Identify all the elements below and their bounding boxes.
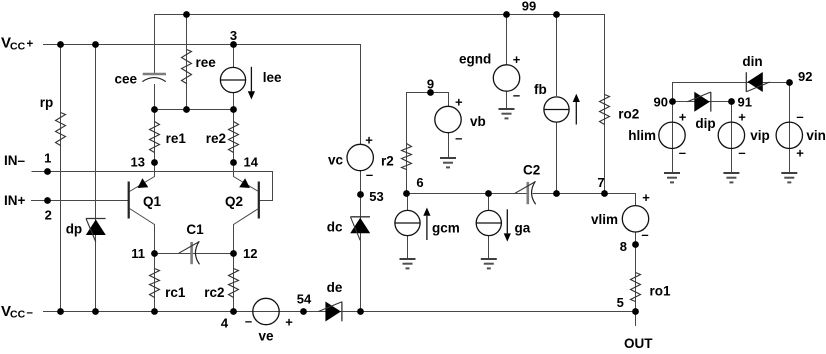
label ga bbox=[515, 221, 531, 236]
node dot rp bottom bbox=[57, 308, 64, 315]
label dip bbox=[695, 116, 715, 131]
voltage source egnd bbox=[493, 65, 519, 91]
svg-text:6: 6 bbox=[416, 175, 423, 190]
node dot fb bottom bbox=[553, 190, 560, 197]
minus of ve bbox=[245, 313, 252, 328]
wire dp branch bbox=[95, 44, 97, 312]
svg-text:Q1: Q1 bbox=[143, 194, 162, 209]
svg-text:9: 9 bbox=[427, 77, 434, 92]
label 11 bbox=[131, 246, 145, 261]
svg-text:lee: lee bbox=[263, 70, 282, 85]
resistor rp bbox=[56, 113, 66, 146]
voltage source vb bbox=[435, 106, 461, 132]
svg-text:4: 4 bbox=[221, 316, 229, 331]
svg-text:+: + bbox=[513, 52, 521, 67]
voltage source vin bbox=[776, 122, 802, 148]
label 54 bbox=[297, 292, 312, 307]
node dot ree top bbox=[183, 11, 190, 18]
label gcm bbox=[432, 221, 460, 236]
minus of vb bbox=[455, 131, 462, 146]
wire IN+ rail to Q1 base bbox=[31, 200, 128, 202]
svg-text:C2: C2 bbox=[523, 163, 540, 178]
label fb bbox=[534, 82, 547, 97]
wire vin branch bbox=[789, 82, 791, 173]
wire node6 rail right bbox=[533, 194, 636, 206]
node 53 bbox=[357, 191, 364, 198]
label vin bbox=[806, 128, 826, 143]
wire re2 branch bbox=[233, 109, 235, 162]
resistor ro1 bbox=[631, 273, 641, 302]
label 53 bbox=[369, 189, 383, 204]
svg-text:CC: CC bbox=[10, 40, 26, 52]
wire C1 node line bbox=[154, 253, 233, 255]
label IN+ bbox=[4, 193, 26, 208]
ground below vip bbox=[723, 173, 739, 182]
diode dp bbox=[86, 219, 106, 243]
wire node 9 link bbox=[407, 92, 448, 94]
wire ree branch bbox=[186, 14, 188, 109]
wire rp branch bbox=[60, 44, 62, 312]
svg-text:ro1: ro1 bbox=[650, 284, 672, 299]
wire vb branch upper bbox=[448, 92, 450, 106]
label 9 bbox=[427, 77, 434, 92]
wire din rail bbox=[672, 82, 789, 84]
diode de bbox=[318, 302, 342, 322]
node 9 bbox=[427, 89, 434, 96]
label Q2 bbox=[225, 194, 243, 209]
svg-text:+: + bbox=[796, 146, 804, 161]
wire ga branch bbox=[488, 193, 490, 210]
svg-text:1: 1 bbox=[44, 151, 51, 166]
svg-text:54: 54 bbox=[297, 292, 312, 307]
plus of vip bbox=[738, 110, 746, 125]
node dot ga top bbox=[485, 190, 492, 197]
wire re1 branch bbox=[154, 109, 156, 162]
voltage source ve bbox=[253, 298, 279, 324]
svg-text:fb: fb bbox=[534, 82, 547, 97]
svg-text:re2: re2 bbox=[206, 131, 226, 146]
svg-text:ga: ga bbox=[515, 221, 531, 236]
wire ro2 branch vertical bbox=[604, 14, 606, 193]
svg-text:–: – bbox=[27, 307, 34, 319]
transistor Q2 bbox=[234, 163, 259, 254]
svg-text:din: din bbox=[742, 54, 762, 69]
svg-text:gcm: gcm bbox=[432, 221, 460, 236]
label lee bbox=[263, 70, 282, 85]
resistor ro2 bbox=[600, 95, 610, 125]
plus of egnd bbox=[513, 52, 521, 67]
label vb bbox=[470, 114, 486, 129]
svg-text:7: 7 bbox=[597, 175, 604, 190]
ground below egnd bbox=[499, 109, 515, 118]
label 13 bbox=[131, 155, 145, 170]
wire hlim branch bbox=[672, 102, 674, 173]
label dc bbox=[327, 220, 343, 235]
svg-text:–: – bbox=[513, 88, 520, 103]
svg-text:53: 53 bbox=[369, 189, 383, 204]
resistor re2 bbox=[229, 122, 239, 153]
plus of vin bbox=[796, 146, 804, 161]
svg-text:rp: rp bbox=[40, 95, 54, 110]
current source ga arrow bbox=[504, 209, 511, 241]
wire node6 rail left bbox=[407, 193, 528, 195]
current source lee arrow bbox=[248, 67, 255, 100]
wire ga to ground bbox=[488, 236, 490, 260]
ground below ga bbox=[481, 259, 497, 268]
wire vc to output rail bbox=[360, 170, 362, 312]
svg-text:12: 12 bbox=[243, 246, 257, 261]
svg-text:92: 92 bbox=[798, 69, 812, 84]
svg-text:C1: C1 bbox=[186, 222, 204, 237]
wire IN- rail to Q2 base bbox=[32, 172, 273, 201]
svg-text:+: + bbox=[365, 132, 373, 147]
svg-text:rc1: rc1 bbox=[165, 285, 186, 300]
label 14 bbox=[244, 155, 259, 170]
wire rc1 branch bbox=[154, 253, 156, 312]
current source ga bbox=[476, 210, 501, 235]
node dot ree bottom bbox=[183, 106, 190, 113]
svg-text:91: 91 bbox=[738, 95, 752, 110]
node 92 bbox=[786, 79, 793, 86]
wire lee branch upper bbox=[233, 44, 235, 68]
label 90 bbox=[654, 95, 668, 110]
wire gcm branch bbox=[407, 194, 409, 211]
svg-text:ro2: ro2 bbox=[618, 107, 639, 122]
label vc bbox=[328, 153, 344, 168]
label 3 bbox=[230, 28, 237, 43]
label hlim bbox=[628, 128, 656, 143]
svg-text:IN+: IN+ bbox=[4, 193, 26, 208]
label rp bbox=[40, 95, 54, 110]
wire OUT stub bbox=[635, 312, 637, 326]
label din bbox=[742, 54, 762, 69]
svg-text:de: de bbox=[327, 280, 343, 295]
svg-text:vin: vin bbox=[806, 128, 826, 143]
node 12 bbox=[230, 250, 237, 257]
label re2 bbox=[206, 131, 226, 146]
diode din bbox=[746, 72, 770, 92]
wire egnd branch bbox=[506, 14, 508, 65]
label 92 bbox=[798, 69, 812, 84]
voltage source vlim bbox=[622, 206, 648, 232]
label re1 bbox=[166, 131, 187, 146]
svg-text:CC: CC bbox=[10, 308, 26, 320]
node 14 bbox=[230, 159, 237, 166]
node 13 bbox=[151, 159, 158, 166]
label VCC- bbox=[1, 303, 34, 320]
label rc1 bbox=[165, 285, 186, 300]
plus of vc bbox=[365, 132, 373, 147]
minus of egnd bbox=[513, 88, 520, 103]
ground below vb bbox=[440, 158, 456, 167]
current source fb bbox=[544, 97, 569, 122]
svg-text:dp: dp bbox=[66, 222, 83, 237]
wire lee branch lower bbox=[233, 92, 235, 109]
label 7 bbox=[597, 175, 604, 190]
node 1 bbox=[44, 168, 51, 175]
svg-text:IN–: IN– bbox=[4, 153, 26, 168]
node 8 bbox=[632, 241, 639, 248]
svg-text:3: 3 bbox=[230, 28, 237, 43]
svg-text:vc: vc bbox=[328, 153, 344, 168]
node dot dp bottom bbox=[92, 308, 99, 315]
label ree bbox=[196, 55, 217, 70]
node dot rp top bbox=[57, 41, 64, 48]
current source gcm arrow bbox=[423, 208, 430, 241]
current source gcm bbox=[395, 210, 420, 235]
label vip bbox=[750, 128, 770, 143]
svg-text:–: – bbox=[641, 227, 648, 242]
capacitor cee bbox=[142, 74, 166, 82]
node 3 bbox=[230, 41, 237, 48]
svg-text:11: 11 bbox=[131, 246, 145, 261]
wire gcm to ground bbox=[407, 236, 409, 260]
svg-text:99: 99 bbox=[522, 0, 536, 14]
svg-text:dip: dip bbox=[695, 116, 715, 131]
plus of vlim bbox=[642, 190, 650, 205]
resistor ree bbox=[182, 50, 192, 84]
diode dc bbox=[350, 217, 370, 241]
svg-text:dc: dc bbox=[327, 220, 343, 235]
node 2 bbox=[44, 197, 51, 204]
resistor rc2 bbox=[229, 269, 239, 298]
node dot cee bottom bbox=[151, 106, 158, 113]
svg-text:2: 2 bbox=[45, 208, 52, 223]
wire top rail node 99 bbox=[154, 14, 605, 16]
label rc2 bbox=[204, 285, 224, 300]
svg-text:ree: ree bbox=[196, 55, 217, 70]
label cee bbox=[115, 72, 138, 87]
svg-text:90: 90 bbox=[654, 95, 668, 110]
wire vc branch vertical bbox=[360, 44, 362, 145]
label 4 bbox=[221, 316, 229, 331]
ground below hlim bbox=[664, 173, 680, 182]
wire r2 branch bbox=[406, 92, 408, 193]
svg-text:ve: ve bbox=[258, 329, 274, 344]
node 5 bbox=[632, 308, 639, 315]
label r2 bbox=[381, 154, 394, 169]
wire Vcc- output rail bbox=[43, 311, 635, 313]
label ve bbox=[258, 329, 274, 344]
minus of hlim bbox=[679, 145, 686, 160]
svg-text:r2: r2 bbox=[381, 154, 394, 169]
label egnd bbox=[459, 52, 491, 67]
ground below gcm bbox=[400, 259, 416, 268]
wire cee branch lower bbox=[154, 84, 156, 109]
svg-text:re1: re1 bbox=[166, 131, 187, 146]
svg-text:–: – bbox=[245, 313, 252, 328]
resistor r2 bbox=[402, 144, 412, 170]
wire egnd to ground bbox=[506, 91, 508, 109]
minus of vlim bbox=[641, 227, 648, 242]
plus of hlim bbox=[679, 110, 687, 125]
minus of vip bbox=[738, 145, 745, 160]
svg-text:egnd: egnd bbox=[459, 52, 491, 67]
wire node 90 riser bbox=[672, 82, 674, 102]
label C1 bbox=[186, 222, 204, 237]
label 5 bbox=[617, 295, 624, 310]
svg-text:+: + bbox=[285, 315, 293, 330]
wire dip rail bbox=[672, 101, 731, 103]
label ro1 bbox=[650, 284, 672, 299]
resistor rc1 bbox=[150, 269, 160, 298]
label 12 bbox=[243, 246, 257, 261]
svg-text:–: – bbox=[738, 145, 745, 160]
voltage source hlim bbox=[659, 122, 685, 148]
svg-text:–: – bbox=[366, 167, 373, 182]
svg-text:hlim: hlim bbox=[628, 128, 656, 143]
wire fb branch lower bbox=[556, 122, 558, 193]
node 7 bbox=[601, 190, 608, 197]
wire rc2 branch bbox=[233, 253, 235, 312]
current source lee bbox=[220, 67, 245, 92]
minus of vin bbox=[796, 109, 803, 124]
svg-text:5: 5 bbox=[617, 295, 624, 310]
svg-text:Q2: Q2 bbox=[225, 194, 243, 209]
minus of vc bbox=[366, 167, 373, 182]
svg-text:cee: cee bbox=[115, 72, 138, 87]
node 54 bbox=[300, 308, 307, 315]
svg-text:+: + bbox=[738, 110, 746, 125]
node 91 bbox=[728, 98, 735, 105]
plus of ve bbox=[285, 315, 293, 330]
label OUT bbox=[624, 336, 653, 351]
diode dip bbox=[687, 92, 711, 112]
node dot fb top bbox=[553, 11, 560, 18]
resistor re1 bbox=[150, 122, 160, 153]
wire fb branch upper bbox=[556, 14, 558, 96]
voltage source vc bbox=[347, 144, 373, 170]
label 6 bbox=[416, 175, 423, 190]
svg-text:–: – bbox=[455, 131, 462, 146]
label 8 bbox=[620, 239, 627, 254]
label VCC+ bbox=[1, 35, 34, 53]
label ro2 bbox=[618, 107, 639, 122]
current source fb arrow bbox=[573, 94, 580, 125]
label vlim bbox=[591, 212, 618, 227]
node dot rc1 bottom bbox=[151, 308, 158, 315]
svg-text:+: + bbox=[455, 95, 463, 110]
capacitor C1 bbox=[179, 241, 200, 264]
node 11 bbox=[151, 250, 158, 257]
plus of vb bbox=[455, 95, 463, 110]
label 2 bbox=[45, 208, 52, 223]
voltage source vip bbox=[718, 122, 744, 148]
label 91 bbox=[738, 95, 752, 110]
label C2 bbox=[523, 163, 540, 178]
wire vlim branch lower bbox=[635, 232, 637, 312]
label 1 bbox=[44, 151, 51, 166]
svg-text:14: 14 bbox=[244, 155, 259, 170]
wire vip branch bbox=[731, 102, 733, 173]
svg-text:vb: vb bbox=[470, 114, 486, 129]
node 4 bbox=[230, 308, 237, 315]
transistor Q1 bbox=[129, 163, 155, 254]
wire Vcc+ rail bbox=[43, 44, 360, 46]
node 99 bbox=[503, 11, 510, 18]
svg-text:8: 8 bbox=[620, 239, 627, 254]
label IN- bbox=[4, 153, 26, 168]
svg-text:vlim: vlim bbox=[591, 212, 618, 227]
svg-text:+: + bbox=[27, 39, 34, 51]
label 99 bbox=[522, 0, 536, 14]
label dp bbox=[66, 222, 83, 237]
ground below vin bbox=[781, 173, 797, 182]
svg-text:–: – bbox=[679, 145, 686, 160]
svg-text:+: + bbox=[679, 110, 687, 125]
capacitor C2 bbox=[515, 181, 536, 204]
node 90 bbox=[669, 98, 676, 105]
svg-text:rc2: rc2 bbox=[204, 285, 224, 300]
svg-text:OUT: OUT bbox=[624, 336, 653, 349]
node dot lee bottom bbox=[230, 106, 237, 113]
node dot dp top bbox=[92, 41, 99, 48]
wire vb branch lower bbox=[448, 132, 450, 158]
label Q1 bbox=[143, 194, 162, 209]
node 6 bbox=[403, 190, 410, 197]
svg-text:–: – bbox=[796, 109, 803, 124]
svg-text:vip: vip bbox=[750, 128, 770, 143]
wire emitter node line bbox=[154, 109, 233, 111]
svg-text:13: 13 bbox=[131, 155, 145, 170]
node dot dc bottom bbox=[357, 308, 364, 315]
label de bbox=[327, 280, 343, 295]
svg-text:+: + bbox=[642, 190, 650, 205]
wire cee branch upper bbox=[154, 14, 156, 74]
